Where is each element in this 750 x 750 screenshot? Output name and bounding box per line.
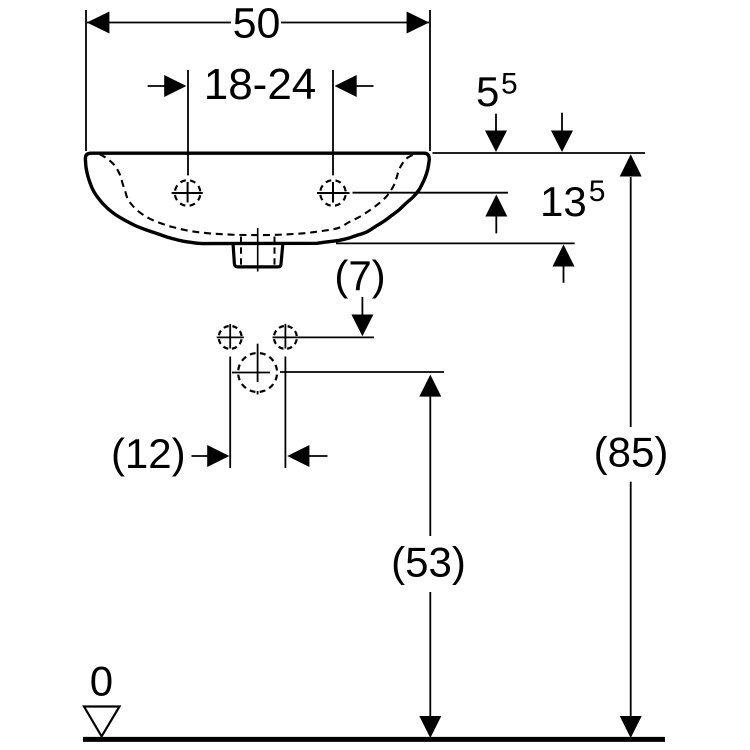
dimension 50 extension lines xyxy=(86,10,430,151)
reference line: basin bottom level xyxy=(336,242,575,244)
dimension (53) xyxy=(391,375,466,738)
dimension (12) xyxy=(111,430,328,477)
reference line: basin rim level xyxy=(433,152,646,154)
dimension 18-24 xyxy=(148,60,374,109)
dimension 13.5 xyxy=(540,113,605,283)
tap hole right xyxy=(317,180,350,206)
tap hole left xyxy=(172,180,203,206)
svg-text:18-24: 18-24 xyxy=(204,60,317,109)
svg-text:0: 0 xyxy=(90,658,113,705)
svg-text:13: 13 xyxy=(540,178,587,225)
svg-text:(7): (7) xyxy=(334,252,385,299)
fixing hole extension lines xyxy=(230,324,285,468)
svg-text:50: 50 xyxy=(233,0,281,48)
svg-text:5: 5 xyxy=(589,175,606,208)
dimension 5.5 xyxy=(476,67,518,233)
reference line: siphon axis xyxy=(280,371,444,373)
floor line xyxy=(83,737,665,742)
siphon outlet circle xyxy=(232,344,277,395)
svg-text:(12): (12) xyxy=(111,430,186,477)
reference line: fixing hole axis xyxy=(273,336,375,338)
svg-text:5: 5 xyxy=(501,67,518,100)
fixing hole right xyxy=(274,326,297,349)
dimension (85) xyxy=(594,154,669,738)
fixing hole left xyxy=(217,326,244,349)
dimension (7) xyxy=(334,252,385,336)
washbasin inner rim (dashed) xyxy=(100,154,413,235)
datum triangle symbol xyxy=(84,707,120,737)
washbasin outer outline xyxy=(85,153,429,243)
reference line: tap hole axis xyxy=(353,192,509,194)
svg-text:5: 5 xyxy=(476,68,499,115)
svg-text:(53): (53) xyxy=(391,539,466,586)
dimension 50 xyxy=(87,0,429,48)
drain trap outlet xyxy=(233,228,283,272)
svg-text:(85): (85) xyxy=(594,429,669,476)
dimension 18-24 extension lines xyxy=(188,70,333,175)
